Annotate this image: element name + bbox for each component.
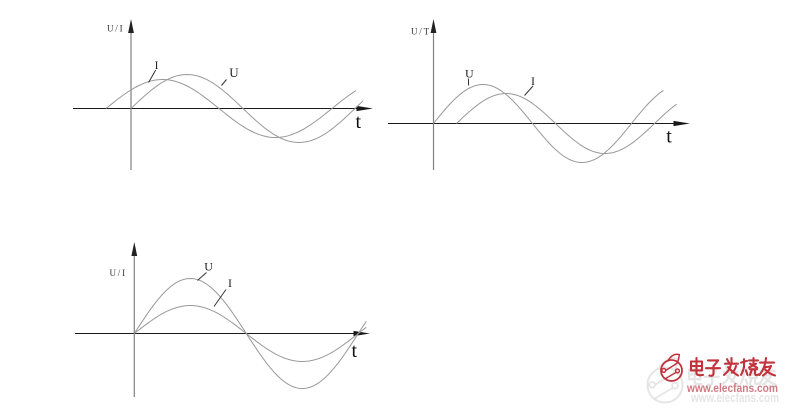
D3 label I leader line	[214, 290, 226, 307]
watermark: embossed gray shadow (elecfans)	[648, 358, 780, 405]
D3 vertical axis (U/I)	[133, 255, 135, 397]
watermark: red elecfans logo circle	[661, 354, 682, 381]
svg-text:I: I	[531, 74, 535, 88]
svg-text:I: I	[228, 276, 232, 290]
D1 label U leader line	[222, 80, 227, 86]
D3 label U leader line	[198, 273, 207, 281]
D2 v-axis arrowhead	[431, 19, 437, 33]
D2 horizontal axis (t)	[388, 123, 676, 125]
D2 t-axis arrowhead	[674, 121, 691, 126]
svg-text:t: t	[356, 111, 362, 133]
D3 horizontal axis (t)	[75, 333, 356, 335]
diagram D3: U and I in phase	[75, 242, 370, 397]
svg-text:U/I: U/I	[107, 24, 124, 34]
D3 t-axis arrowhead	[354, 331, 371, 336]
svg-text:www.elecfans.com: www.elecfans.com	[686, 383, 778, 395]
svg-text:t: t	[352, 340, 358, 362]
D1 curve U	[131, 75, 363, 143]
svg-text:I: I	[155, 60, 159, 72]
D3 curve I	[134, 306, 366, 362]
diagram D2: phase graph, U leads I	[388, 19, 690, 170]
D1 t-axis arrowhead	[357, 106, 374, 111]
diagram D1: phase graph, I leads U	[73, 19, 373, 170]
svg-text:U/T: U/T	[411, 26, 431, 36]
watermark: red text dianzifashaoyou	[691, 358, 775, 376]
svg-text:U: U	[465, 67, 474, 81]
svg-text:U/I: U/I	[110, 268, 127, 278]
D1 curve I (leads)	[106, 80, 356, 138]
D2 label I leader line	[525, 86, 534, 96]
D2 label U leader line	[467, 79, 469, 86]
svg-text:t: t	[666, 126, 672, 148]
D2 vertical axis (U/I)	[433, 32, 435, 170]
D3 curve U	[134, 279, 366, 389]
D2 curve I	[457, 94, 677, 154]
D1 vertical axis (U/I)	[130, 32, 132, 170]
D2 curve U (leads)	[434, 85, 664, 163]
D1 v-axis arrowhead	[128, 19, 134, 33]
D3 v-axis arrowhead	[131, 242, 137, 256]
svg-text:U: U	[229, 65, 239, 80]
D1 label I leader line	[149, 70, 156, 83]
svg-text:U: U	[204, 259, 213, 273]
D1 horizontal axis (t)	[73, 108, 359, 110]
